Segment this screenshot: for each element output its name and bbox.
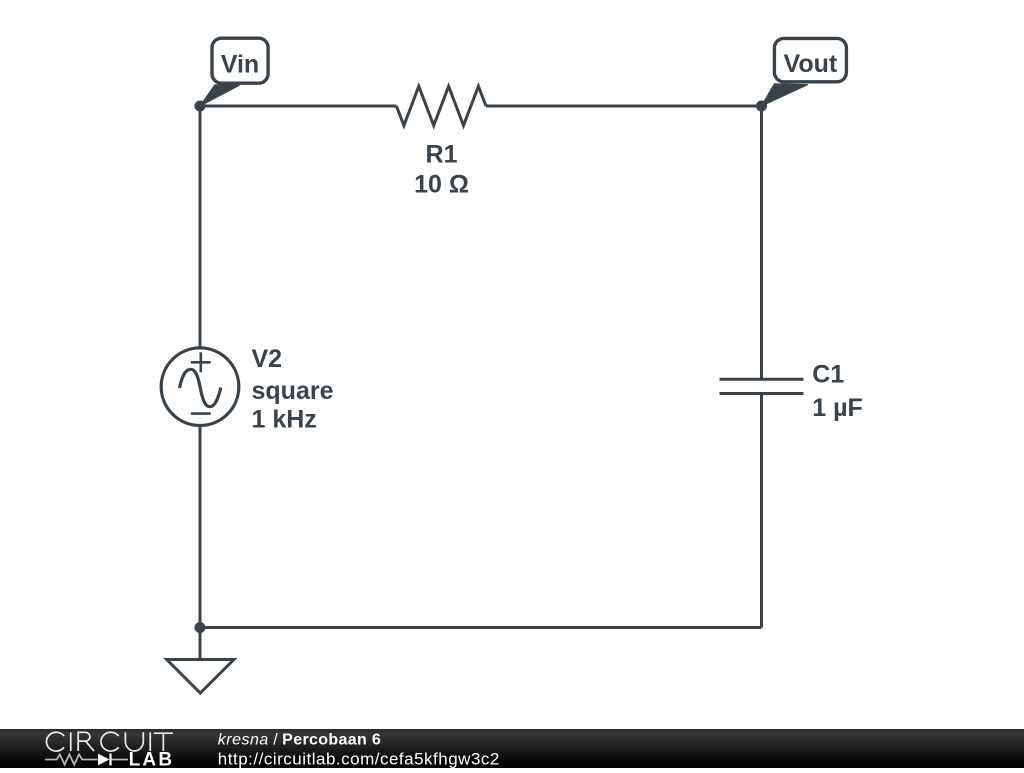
- wire V2 to ground node: [199, 426, 202, 628]
- svg-text:C1: C1: [812, 361, 844, 389]
- CircuitLab logo LAB: [129, 750, 175, 771]
- resistor R1: [396, 86, 486, 125]
- svg-text:kresna / Percobaan 6: kresna / Percobaan 6: [218, 732, 381, 749]
- footer title kresna / Percobaan 6: [218, 732, 381, 749]
- footer url: [218, 749, 500, 768]
- wire R1 to Vout node: [486, 105, 762, 108]
- svg-text:square: square: [252, 377, 334, 405]
- ground: [167, 660, 234, 694]
- svg-text:http://circuitlab.com/cefa5kfh: http://circuitlab.com/cefa5kfhgw3c2: [218, 749, 500, 768]
- label V2 value: [252, 345, 334, 434]
- junction node Vin: [195, 101, 206, 112]
- voltage source V2: [161, 348, 239, 426]
- capacitor C1: [720, 379, 804, 393]
- wire C1 to bottom: [760, 394, 763, 628]
- wire Vin node to R1: [200, 105, 396, 108]
- label R1 value: [414, 141, 469, 199]
- junction node Vout: [756, 101, 767, 112]
- svg-text:1 µF: 1 µF: [812, 394, 863, 422]
- node flag Vin: [200, 38, 268, 106]
- svg-text:10 Ω: 10 Ω: [414, 170, 469, 198]
- junction node ground: [195, 622, 206, 633]
- svg-text:V2: V2: [252, 345, 283, 373]
- svg-text:1 kHz: 1 kHz: [252, 406, 317, 434]
- wire Vout node down to C1: [760, 106, 763, 379]
- svg-text:R1: R1: [426, 141, 458, 169]
- svg-text:LAB: LAB: [129, 750, 175, 768]
- node flag Vout: [762, 38, 847, 106]
- wire ground stub: [199, 628, 202, 660]
- CircuitLab logo resistor-diode glyph: [45, 754, 128, 766]
- svg-text:Vin: Vin: [221, 51, 259, 79]
- label C1 value: [812, 361, 863, 422]
- wire Vin node down to V2: [199, 106, 202, 348]
- svg-text:Vout: Vout: [784, 50, 838, 78]
- wire bottom: [200, 626, 762, 629]
- CircuitLab logo CIRCUIT: [46, 732, 173, 751]
- footer bar: [0, 729, 1024, 768]
